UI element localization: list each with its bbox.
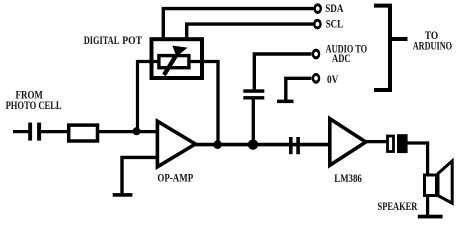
svg-text:OP-AMP: OP-AMP — [157, 172, 193, 184]
capacitor C4 (output electrolytic, + plate) — [388, 136, 394, 152]
wire pot box right to output node — [188, 62, 218, 145]
terminal 0V — [312, 73, 321, 84]
capacitor C4 (- plate) — [397, 134, 408, 153]
wire op-amp output — [195, 143, 331, 147]
svg-text:DIGITAL: DIGITAL — [84, 35, 120, 47]
wire junction up to digital pot — [138, 62, 159, 132]
svg-text:PHOTO CELL: PHOTO CELL — [6, 100, 62, 112]
wire 0V to ground — [286, 78, 312, 100]
ground (op-amp) — [113, 193, 133, 197]
wire LM386 output — [365, 140, 387, 143]
wire speaker to ground — [426, 195, 429, 216]
resistor R1 — [69, 125, 98, 141]
wire C1 to R1 — [41, 130, 67, 133]
bracket TO ARDUINO — [374, 6, 408, 90]
capacitor C1 (input coupling) — [28, 123, 41, 141]
svg-text:0V: 0V — [327, 74, 338, 86]
terminal SCL — [313, 19, 322, 30]
wire SDA from pot to terminal — [163, 9, 313, 39]
wire R1 to op-amp noninverting input — [98, 130, 159, 133]
potentiometer resistor body — [159, 56, 189, 68]
wire inverting input — [122, 157, 157, 193]
wire C3 to output node — [252, 99, 255, 145]
svg-text:POT: POT — [122, 35, 142, 47]
svg-text:SPEAKER: SPEAKER — [378, 201, 419, 213]
capacitor C2 (interstage coupling) — [289, 137, 300, 154]
node dot (ADC tap) — [248, 139, 258, 149]
wire C4 to speaker — [408, 143, 428, 175]
wire through pot box left — [149, 60, 159, 63]
svg-text:SDA: SDA — [325, 3, 343, 15]
wire audio-to-ADC tap — [254, 54, 311, 90]
svg-text:ADC: ADC — [332, 53, 351, 65]
node junction dot (R1 / pot branch) — [133, 127, 141, 135]
op-amp U2 — [157, 121, 195, 167]
ground (0V) — [277, 100, 293, 104]
digital pot U1 outer box — [152, 39, 203, 78]
terminal AUDIO TO ADC — [312, 49, 321, 60]
speaker LS1 driver — [425, 175, 437, 196]
potentiometer wiper arrow — [164, 46, 188, 75]
capacitor C3 (ADC coupling) — [243, 89, 264, 99]
svg-text:SCL: SCL — [326, 19, 343, 31]
amplifier LM386 U3 — [330, 119, 366, 166]
terminal SDA — [313, 3, 322, 14]
ground (speaker) — [418, 215, 443, 219]
speaker cone — [438, 161, 452, 203]
node dot (pot feedback) — [213, 140, 222, 149]
svg-text:ARDUINO: ARDUINO — [413, 41, 453, 53]
wire SCL from pot to terminal — [187, 24, 314, 39]
svg-text:LM386: LM386 — [334, 173, 362, 185]
wire input stub — [13, 130, 29, 133]
